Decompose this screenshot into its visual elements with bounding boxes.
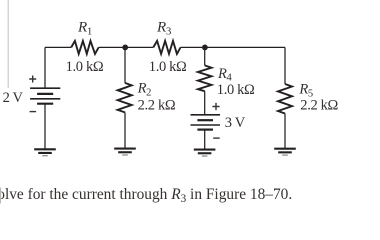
battery B1 2V plate short	[37, 93, 53, 95]
wire battery B1 to ground	[44, 104, 46, 150]
svg-text:R1: R1	[77, 20, 92, 38]
svg-text:1.0 kΩ: 1.0 kΩ	[149, 59, 187, 75]
node B junction dot	[202, 45, 208, 51]
resistor R4	[198, 65, 212, 91]
plus sign battery B2	[212, 103, 219, 110]
plus sign battery B1	[29, 76, 36, 83]
battery B1 2V plate long top	[30, 87, 60, 89]
ground G3 (battery B2)	[194, 150, 216, 156]
svg-text:R4: R4	[217, 66, 233, 84]
minus sign battery B2	[213, 137, 220, 139]
resistor R2	[118, 83, 132, 113]
battery B1 2V plate short bottom	[37, 103, 53, 105]
wire R5 to ground	[284, 114, 286, 149]
ground G2 (R2)	[114, 149, 136, 155]
wire top-left from battery corner to R1	[45, 46, 71, 48]
svg-text:1.0 kΩ: 1.0 kΩ	[66, 59, 104, 75]
svg-text:2.2 kΩ: 2.2 kΩ	[138, 97, 176, 113]
svg-text:R3: R3	[156, 20, 172, 38]
resistor R5	[278, 84, 292, 114]
battery B1 2V plate long bottom	[30, 98, 60, 100]
minus sign battery B1	[30, 111, 36, 113]
battery B2 3V plate long top	[191, 114, 221, 116]
ground G1 (left battery)	[34, 149, 56, 155]
node A junction dot	[122, 45, 128, 51]
left edge cut glyph artifact	[0, 188, 1, 204]
svg-text:Solve for the current through: Solve for the current through R3 in Figu…	[0, 186, 292, 205]
wire R2 to ground	[124, 112, 126, 148]
wire battery B2 to ground	[204, 130, 206, 150]
wire node A down to R2	[124, 47, 126, 83]
page column border (faint)	[7, 0, 9, 88]
svg-text:2.2 kΩ: 2.2 kΩ	[300, 97, 338, 113]
resistor R3	[153, 41, 180, 54]
svg-text:3 V: 3 V	[225, 115, 246, 131]
svg-text:2 V: 2 V	[3, 90, 24, 106]
wire right branch down to R5	[284, 47, 286, 84]
battery B2 3V plate short bottom	[197, 129, 213, 131]
resistor R1	[71, 41, 98, 54]
wire from R3 to top-right corner	[181, 46, 286, 48]
svg-text:1.0 kΩ: 1.0 kΩ	[217, 82, 255, 98]
wire between R1 and R3 through node A	[99, 46, 154, 48]
battery B2 3V plate long bottom	[191, 124, 221, 126]
wire R4 to battery B2	[204, 91, 206, 115]
wire left branch down to battery	[44, 47, 46, 88]
ground G4 (R5)	[274, 149, 296, 155]
svg-text:R2: R2	[137, 81, 152, 99]
wire node B down to R4	[204, 47, 206, 65]
battery B2 3V plate short	[197, 119, 213, 121]
